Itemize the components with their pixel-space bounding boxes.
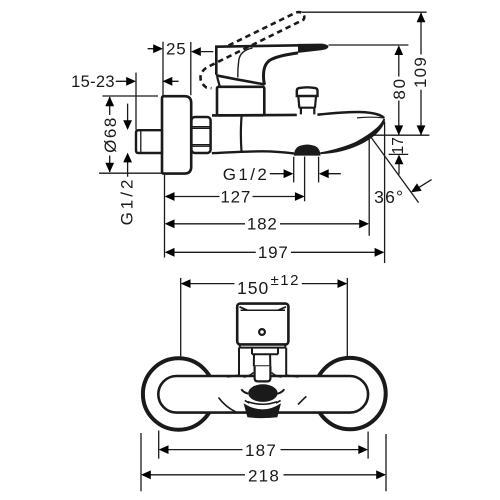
left escutcheon circle: [143, 358, 214, 429]
svg-text:80: 80: [390, 77, 409, 100]
body bottom edge: [212, 151, 294, 153]
handle inner top line: [241, 309, 286, 311]
svg-text:G1/2: G1/2: [223, 165, 269, 184]
handle base foot edge: [217, 77, 220, 88]
handle lever solid: [216, 44, 300, 48]
dim 150 line: [190, 283, 338, 285]
dim 25 extension lines: [163, 42, 191, 96]
left extension line for 127/182/197: [164, 175, 166, 258]
svg-text:197: 197: [258, 243, 289, 262]
36 degree angle line: [370, 135, 419, 202]
body bar: [158, 376, 368, 413]
svg-text:G1/2: G1/2: [118, 177, 137, 226]
dashed lever open position: [200, 12, 304, 88]
tail piece relief line: [140, 131, 142, 153]
svg-text:25: 25: [166, 40, 187, 59]
spout side horns: [241, 389, 284, 394]
handle inner curve: [238, 48, 253, 78]
dim 187 line: [168, 449, 359, 451]
bar surface arc right: [298, 396, 306, 404]
cartridge escutcheon block: [217, 87, 264, 116]
bar surface arc left: [219, 398, 236, 413]
handle left edge: [215, 45, 218, 74]
dim Ø68 line: [109, 97, 111, 172]
aerator ellipse: [248, 384, 277, 402]
svg-text:Ø68: Ø68: [101, 116, 120, 153]
svg-text:182: 182: [247, 215, 278, 234]
svg-text:150: 150: [237, 278, 269, 298]
G1/2 tail thread callout arrows: [127, 104, 129, 177]
cartridge step B: [254, 354, 270, 366]
smile line under aerator: [248, 402, 277, 405]
body cone separator: [240, 116, 243, 153]
svg-text:±12: ±12: [271, 272, 300, 289]
shower port dome: [294, 145, 321, 156]
spout bottom reference line: [368, 134, 429, 136]
lever blade tip: [298, 44, 328, 53]
spout top edge: [317, 112, 384, 118]
dim 17: [389, 154, 409, 174]
svg-text:15-23: 15-23: [71, 73, 115, 91]
dim 187 extension lines: [159, 431, 368, 459]
dim 80: [398, 55, 400, 135]
svg-text:127: 127: [220, 187, 251, 206]
hex nut: [191, 117, 210, 153]
side ticks: [245, 401, 281, 404]
wall escutcheon: [162, 96, 191, 173]
wire extension line top of closed lever (80 ref): [329, 44, 409, 46]
svg-text:218: 218: [248, 466, 280, 485]
handle skirt band: [240, 344, 285, 347]
dim 197: [173, 251, 375, 253]
dim 182: [173, 223, 360, 225]
diverter knob neck: [301, 108, 314, 115]
cartridge casing sides: [239, 348, 286, 376]
dim Ø68 extension lines: [99, 96, 162, 173]
wire extension line top of open lever (109 ref): [302, 11, 427, 13]
handle chamfer ticks: [240, 307, 287, 310]
G1/2 shower port arrows: [270, 173, 341, 175]
body top edge: [212, 114, 297, 117]
diverter band front: [244, 403, 281, 418]
dim 15-23 extension: [135, 73, 137, 130]
36 degree leader: [418, 180, 432, 189]
right extension lines: [305, 122, 385, 263]
dim 150 extension lines: [181, 278, 348, 357]
handle front: [237, 304, 288, 345]
svg-text:187: 187: [245, 441, 277, 460]
right escutcheon circle: [314, 358, 385, 429]
dim 109: [420, 13, 422, 135]
dim 218 extension lines: [141, 433, 386, 491]
cartridge step A: [252, 348, 278, 355]
handle bottom bevel: [216, 75, 265, 84]
svg-text:17: 17: [390, 137, 407, 154]
dim 127: [173, 196, 296, 198]
G1/2 port extension lines: [294, 157, 319, 183]
dim 218 line: [150, 474, 376, 476]
threaded tail piece: [136, 130, 162, 153]
dim 25 arrows: [153, 44, 163, 53]
dim 15-23 line: [116, 80, 179, 82]
diverter knob middle: [298, 96, 316, 108]
svg-text:109: 109: [411, 56, 430, 88]
spout underside thick sweep: [320, 118, 385, 154]
spout tube front: [255, 366, 271, 381]
spout inner rim line: [357, 116, 382, 119]
svg-text:36°: 36°: [374, 187, 404, 207]
nut facet lines: [193, 127, 210, 147]
casing shoulders: [227, 375, 299, 377]
diverter knob cap: [297, 87, 318, 96]
lever underside curve: [264, 53, 298, 85]
tube base flares: [244, 373, 282, 378]
handle indicator dot: [259, 329, 265, 335]
